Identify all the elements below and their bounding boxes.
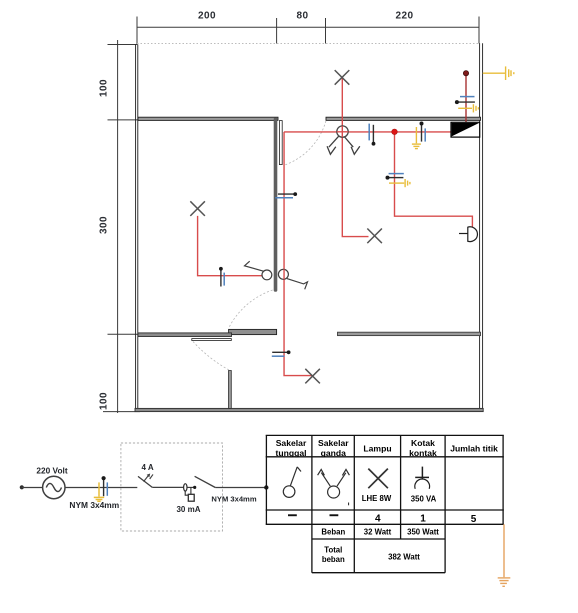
svg-text:220 Volt: 220 Volt xyxy=(36,466,67,476)
svg-text:NYM 3x4mm: NYM 3x4mm xyxy=(211,494,256,503)
svg-text:30 mA: 30 mA xyxy=(176,505,200,514)
svg-text:32 Watt: 32 Watt xyxy=(364,528,392,537)
svg-text:Beban: Beban xyxy=(321,528,345,537)
svg-text:300: 300 xyxy=(99,216,110,234)
svg-text:Jumlah titik: Jumlah titik xyxy=(450,443,498,453)
svg-text:100: 100 xyxy=(98,392,109,410)
svg-text:1: 1 xyxy=(420,514,426,525)
svg-text:Sakelar: Sakelar xyxy=(276,438,307,448)
svg-text:beban: beban xyxy=(322,555,345,564)
svg-text:ganda: ganda xyxy=(321,448,347,458)
svg-text:100: 100 xyxy=(98,79,109,97)
svg-text:LHE 8W: LHE 8W xyxy=(362,494,392,503)
svg-text:200: 200 xyxy=(198,10,216,21)
svg-text:350 Watt: 350 Watt xyxy=(407,528,439,537)
svg-text:NYM 3x4mm: NYM 3x4mm xyxy=(69,500,119,510)
svg-text:220: 220 xyxy=(396,10,414,21)
svg-text:382 Watt: 382 Watt xyxy=(388,552,420,561)
svg-text:Sakelar: Sakelar xyxy=(318,438,349,448)
svg-text:kontak: kontak xyxy=(409,448,437,458)
svg-text:350 VA: 350 VA xyxy=(411,495,437,504)
svg-text:Kotak: Kotak xyxy=(411,438,435,448)
svg-text:Lampu: Lampu xyxy=(363,443,391,453)
svg-text:Total: Total xyxy=(324,545,342,554)
svg-text:80: 80 xyxy=(297,10,309,21)
svg-text:4 A: 4 A xyxy=(142,463,154,472)
svg-text:tunggal: tunggal xyxy=(275,448,306,458)
svg-text:4: 4 xyxy=(375,514,381,525)
svg-text:5: 5 xyxy=(471,514,477,525)
